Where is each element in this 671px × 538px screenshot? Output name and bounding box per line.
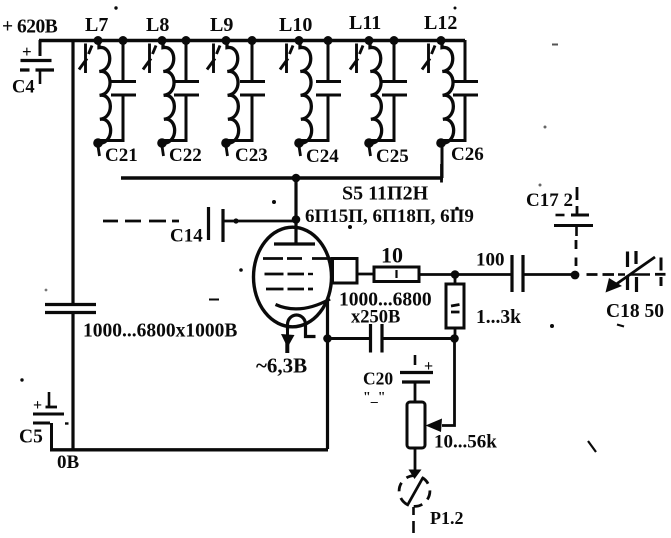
svg-text:C14: C14 — [170, 226, 203, 247]
svg-text:C22: C22 — [169, 145, 202, 166]
svg-text:C5: C5 — [19, 427, 43, 448]
svg-text:C20: C20 — [363, 369, 393, 389]
svg-text:C25: C25 — [376, 146, 409, 167]
svg-text:S5 11П2Н: S5 11П2Н — [342, 183, 429, 205]
svg-text:L7: L7 — [85, 14, 108, 36]
svg-text:C23: C23 — [235, 145, 268, 166]
svg-text:100: 100 — [476, 250, 505, 271]
svg-text:10: 10 — [381, 243, 403, 268]
svg-text:10...56k: 10...56k — [434, 432, 497, 453]
svg-text:х250В: х250В — [351, 308, 400, 328]
svg-text:+: + — [424, 358, 433, 375]
svg-text:C24: C24 — [306, 146, 339, 167]
svg-text:"_": "_" — [363, 390, 386, 405]
svg-text:+: + — [22, 42, 32, 61]
svg-text:C26: C26 — [451, 144, 484, 165]
svg-text:6П15П, 6П18П, 6П9: 6П15П, 6П18П, 6П9 — [305, 206, 474, 227]
svg-text:L10: L10 — [279, 14, 312, 36]
svg-text:+: + — [33, 397, 42, 414]
svg-text:0В: 0В — [57, 452, 80, 473]
svg-text:C4: C4 — [12, 78, 35, 98]
svg-text:L11: L11 — [349, 12, 381, 34]
svg-text:L12: L12 — [424, 12, 457, 34]
svg-text:L9: L9 — [210, 14, 233, 36]
svg-text:+ 620В: + 620В — [2, 17, 58, 38]
svg-text:C18 50: C18 50 — [606, 301, 664, 322]
svg-text:~6,3В: ~6,3В — [256, 354, 307, 378]
svg-text:C21: C21 — [105, 145, 138, 166]
svg-text:1000...6800х1000В: 1000...6800х1000В — [83, 321, 237, 342]
svg-text:L8: L8 — [146, 14, 169, 36]
svg-text:1...3k: 1...3k — [476, 307, 521, 328]
svg-text:C17 2: C17 2 — [526, 190, 573, 211]
svg-text:P1.2: P1.2 — [430, 508, 464, 528]
